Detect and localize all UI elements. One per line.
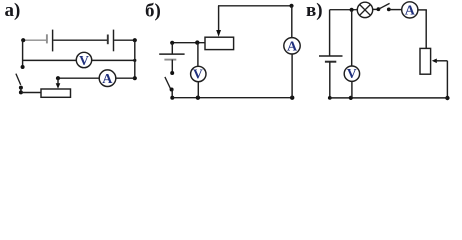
switch S1 lever	[16, 74, 21, 85]
wire voltmeter bottom lead	[197, 82, 199, 98]
switch S2 top terminal	[170, 71, 174, 75]
battery GB2 bottom lead	[171, 60, 173, 73]
battery GB3 long plate	[319, 55, 343, 57]
switch S1 bottom terminal	[19, 86, 23, 90]
node bottom corner	[19, 90, 23, 94]
node lamp tap	[350, 8, 354, 12]
switch S3 left terminal	[377, 7, 381, 11]
wire to top-right corner	[114, 39, 135, 41]
resistor slider arrow	[432, 59, 448, 64]
wire switch to ammeter	[389, 9, 402, 11]
rheostat R1 slider arrow	[56, 78, 61, 89]
svg-text:в): в)	[306, 0, 323, 21]
wire V row left	[23, 59, 77, 61]
wire right rail upper	[425, 10, 427, 49]
wire switch to bottom corner	[171, 90, 173, 98]
svg-text:A: A	[287, 40, 298, 55]
node bottom-left corner	[170, 96, 174, 100]
ammeter A2	[284, 38, 300, 55]
battery GB3 short plate	[325, 61, 336, 63]
svg-text:V: V	[193, 67, 203, 82]
node voltmeter tap	[195, 40, 199, 44]
battery GB2 short plate	[164, 59, 176, 61]
rheostat R1 body	[41, 89, 71, 97]
svg-text:V: V	[79, 53, 89, 68]
svg-text:а): а)	[5, 0, 21, 21]
battery GB2 long plate	[159, 53, 184, 55]
wire voltmeter top lead	[197, 43, 199, 67]
wire top-left gray segment	[23, 39, 46, 41]
wire top row	[218, 5, 292, 7]
node slider tap	[56, 76, 60, 80]
node bottom-right corner	[290, 96, 294, 100]
wire A row left	[58, 77, 99, 79]
battery GB1 cell1 short plate	[46, 34, 48, 43]
battery GB1 cell2 short plate	[107, 35, 109, 45]
svg-text:A: A	[405, 4, 416, 19]
node top-left corner	[21, 38, 25, 42]
node top-right corner	[289, 4, 293, 8]
voltmeter V2	[191, 66, 206, 81]
voltmeter V3	[344, 66, 359, 81]
wire bottom row to rheostat	[21, 92, 41, 94]
node battery top corner	[170, 41, 174, 45]
node A-rail junction	[133, 76, 137, 80]
switch S3 lever	[379, 3, 390, 9]
rheostat R2 body	[205, 37, 234, 49]
wire voltmeter top lead	[351, 10, 353, 66]
wire ammeter bottom lead	[291, 54, 293, 98]
switch S1 top terminal	[21, 65, 25, 69]
ammeter A1	[99, 70, 116, 87]
lamp HL1	[357, 2, 372, 17]
wire voltmeter bottom lead	[351, 81, 353, 98]
wire battery to rheostat	[172, 42, 205, 44]
wire between cells	[53, 39, 107, 41]
rheostat R2 slider arrow	[216, 6, 221, 37]
wire left rail	[22, 40, 24, 67]
svg-text:A: A	[102, 72, 113, 87]
battery GB2 top lead	[171, 43, 173, 54]
wire A row right	[116, 77, 135, 79]
node V-rail junction	[133, 59, 136, 62]
wire left rail upper	[329, 10, 331, 56]
battery GB1 cell2 long plate	[113, 30, 115, 52]
node bottom-right corner	[445, 96, 449, 100]
voltmeter V1	[76, 52, 91, 68]
battery GB3 bottom lead	[329, 62, 331, 98]
switch S2 bottom terminal	[170, 88, 174, 92]
wire top row left	[330, 9, 358, 11]
svg-text:б): б)	[145, 1, 161, 22]
wire ammeter to top-right corner	[418, 9, 427, 11]
wire ammeter top lead	[291, 6, 293, 38]
wire lamp to switch	[373, 8, 379, 10]
node voltmeter bottom tap	[196, 96, 200, 100]
node bottom-left corner	[328, 96, 332, 100]
node top-right corner	[133, 38, 137, 42]
wire right rail	[134, 40, 136, 78]
svg-text:V: V	[347, 66, 357, 81]
resistor R3 body	[420, 48, 431, 74]
wire bottom row	[172, 97, 292, 99]
wire switch to bottom corner	[20, 88, 22, 93]
wire V row right	[92, 59, 135, 61]
switch S3 right terminal	[387, 7, 391, 11]
battery GB1 cell1 long plate	[52, 30, 54, 52]
wire bottom row	[330, 97, 448, 99]
wire slider rail down	[446, 61, 448, 98]
node voltmeter bottom tap	[349, 96, 353, 100]
switch S2 lever	[165, 77, 171, 89]
ammeter A3	[402, 2, 418, 19]
